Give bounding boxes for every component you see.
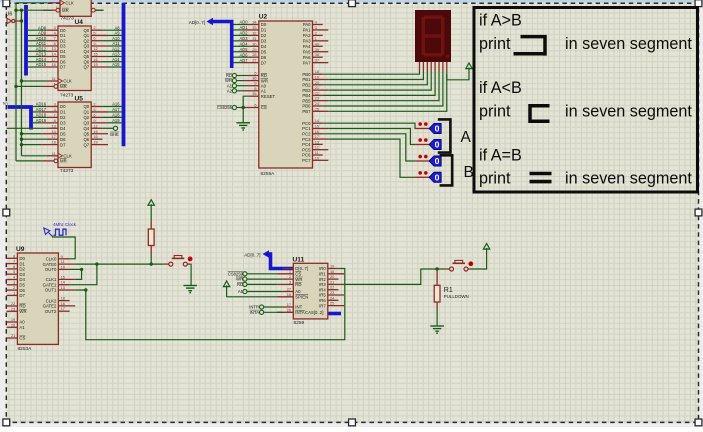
svg-text:D1: D1: [60, 110, 66, 115]
svg-text:17: 17: [51, 134, 55, 139]
svg-text:A11: A11: [113, 41, 121, 46]
svg-text:Q1: Q1: [83, 33, 89, 38]
svg-text:12: 12: [93, 123, 97, 128]
bus AD[16..19] at U5: [8, 107, 32, 130]
ground at U9 button: [183, 286, 197, 294]
svg-text:CLK: CLK: [65, 1, 73, 6]
svg-text:in seven segment: in seven segment: [565, 35, 692, 53]
svg-text:D7: D7: [19, 293, 25, 298]
svg-text:8259: 8259: [294, 320, 305, 326]
svg-text:2: 2: [93, 25, 95, 30]
svg-text:15: 15: [93, 129, 97, 134]
svg-text:AD13: AD13: [36, 52, 47, 57]
svg-text:1: 1: [54, 81, 56, 86]
svg-text:31: 31: [252, 36, 256, 41]
svg-text:AD7: AD7: [240, 58, 249, 63]
svg-text:17: 17: [315, 134, 319, 139]
IC U5 74273 octal latch: [41, 96, 108, 175]
svg-text:16: 16: [93, 57, 97, 62]
wire U5 D4 long west: [7, 127, 47, 129]
svg-text:CLK0: CLK0: [46, 257, 57, 262]
svg-text:A1: A1: [238, 289, 244, 294]
svg-text:U11: U11: [293, 257, 305, 264]
svg-text:INT: INT: [295, 305, 302, 310]
svg-text:PC3: PC3: [302, 137, 311, 142]
svg-text:23: 23: [315, 96, 319, 101]
svg-text:Q3: Q3: [83, 44, 89, 49]
wires A16-A19 from U5 to bus: [102, 102, 121, 123]
segments glyph A greater: [514, 37, 546, 56]
svg-text:RESET: RESET: [261, 94, 276, 99]
svg-text:PULLDOWN: PULLDOWN: [444, 294, 469, 299]
bus label AD[0..7] for U2: [189, 20, 205, 25]
clock source 4MHz symbol: [44, 228, 66, 237]
svg-text:AD10: AD10: [36, 36, 47, 41]
svg-text:MR: MR: [60, 159, 67, 164]
svg-text:37: 37: [315, 58, 319, 63]
svg-text:AD12: AD12: [36, 46, 47, 51]
svg-text:B: B: [464, 164, 474, 181]
svg-text:19: 19: [11, 317, 15, 322]
svg-text:IR0: IR0: [319, 266, 326, 271]
svg-text:OUT2: OUT2: [45, 309, 57, 314]
svg-text:PC5: PC5: [302, 147, 311, 152]
svg-text:GATE0: GATE0: [43, 262, 57, 267]
svg-text:AD11: AD11: [36, 41, 47, 46]
svg-text:AD14: AD14: [36, 57, 47, 62]
svg-text:IR6: IR6: [319, 298, 326, 303]
svg-text:74273: 74273: [61, 16, 75, 22]
svg-text:18: 18: [61, 296, 65, 301]
svg-text:fe): fe): [3, 101, 8, 106]
svg-text:Q6: Q6: [83, 137, 89, 142]
svg-text:D5: D5: [19, 283, 25, 288]
svg-text:25: 25: [330, 301, 334, 306]
svg-text:PB0: PB0: [302, 72, 311, 77]
svg-text:A1: A1: [19, 325, 25, 330]
svg-text:13: 13: [51, 46, 55, 51]
svg-text:3: 3: [54, 102, 56, 107]
svg-text:WR: WR: [295, 277, 302, 282]
svg-text:D3: D3: [19, 272, 25, 277]
svg-text:32: 32: [252, 30, 256, 35]
svg-text:2: 2: [13, 285, 15, 290]
ground below R1: [430, 326, 444, 334]
svg-text:21: 21: [315, 85, 319, 90]
svg-text:8: 8: [54, 41, 56, 46]
svg-text:74273: 74273: [60, 168, 74, 174]
svg-text:U5: U5: [75, 96, 84, 103]
svg-text:A0: A0: [19, 320, 25, 325]
svg-text:A18: A18: [112, 113, 120, 118]
svg-text:INTA: INTA: [250, 310, 259, 315]
svg-text:OUT0: OUT0: [45, 267, 57, 272]
power arrow at display: [466, 63, 472, 73]
svg-text:Q5: Q5: [83, 131, 89, 136]
bracket for input B: [440, 155, 453, 185]
svg-text:16: 16: [61, 301, 65, 306]
svg-text:in seven segment: in seven segment: [565, 170, 692, 188]
svg-text:IR7: IR7: [319, 303, 326, 308]
svg-text:11: 11: [315, 150, 319, 155]
wire button to power: [472, 256, 487, 269]
wire U5 CLK from node V2: [22, 155, 47, 157]
svg-text:16: 16: [287, 292, 291, 297]
svg-text:15: 15: [61, 274, 65, 279]
svg-text:IR4: IR4: [319, 287, 326, 292]
segments glyph A equal: [530, 174, 552, 182]
svg-text:12: 12: [315, 145, 319, 150]
svg-text:7: 7: [54, 112, 56, 117]
svg-text:D7: D7: [60, 142, 66, 147]
svg-text:PA5: PA5: [303, 49, 311, 54]
svg-text:Q4: Q4: [83, 49, 89, 54]
svg-text:AD3: AD3: [240, 36, 249, 41]
bus A[8..15] vertical left: [24, 5, 28, 76]
svg-text:CS8255: CS8255: [217, 105, 233, 110]
wire U9 OUT0 to CLK1: [70, 268, 84, 280]
svg-text:Q1: Q1: [83, 110, 89, 115]
svg-text:12: 12: [93, 46, 97, 51]
svg-text:WR: WR: [236, 277, 243, 282]
svg-text:A2: A2: [227, 88, 233, 93]
svg-text:1: 1: [56, 5, 58, 10]
svg-text:16: 16: [315, 129, 319, 134]
svg-text:2: 2: [315, 30, 317, 35]
svg-text:D0: D0: [60, 28, 66, 33]
power arrow at IR3 button: [483, 244, 489, 257]
wire node V2 vertical: [21, 10, 23, 156]
svg-text:PB7: PB7: [302, 109, 311, 114]
IC U11 8259 interrupt controller: [277, 257, 344, 327]
svg-text:U4: U4: [75, 19, 84, 26]
svg-text:CS: CS: [261, 105, 267, 110]
svg-text:27: 27: [287, 287, 291, 292]
wires AD16-AD19 from bus to U5: [33, 102, 47, 123]
IC top latch 74273 (partial): [43, 0, 102, 22]
svg-text:AD9: AD9: [38, 31, 47, 36]
svg-text:U6: U6: [6, 12, 13, 18]
svg-text:AD6: AD6: [240, 52, 249, 57]
svg-text:1: 1: [289, 269, 291, 274]
svg-text:0: 0: [435, 140, 440, 150]
svg-text:33: 33: [252, 25, 256, 30]
svg-text:D4: D4: [60, 49, 66, 54]
svg-text:print: print: [479, 170, 511, 188]
svg-text:D1: D1: [60, 33, 66, 38]
svg-text:13: 13: [61, 285, 65, 290]
svg-text:A: A: [461, 129, 472, 146]
bracket for input A: [438, 119, 451, 152]
svg-text:CS: CS: [295, 272, 301, 277]
svg-text:D1: D1: [19, 261, 25, 266]
push button at IR3: [445, 260, 474, 271]
wire U9 GATE0 to switch: [75, 262, 164, 265]
svg-text:PC4: PC4: [302, 142, 311, 147]
svg-text:15: 15: [93, 52, 97, 57]
svg-text:6: 6: [254, 103, 256, 108]
svg-text:1: 1: [13, 290, 15, 295]
wire U5 Q4 to terminal BHE: [102, 126, 119, 137]
svg-text:7: 7: [13, 259, 15, 264]
svg-text:18: 18: [315, 69, 319, 74]
seven segment pin stubs: [420, 62, 447, 71]
svg-text:3: 3: [289, 279, 291, 284]
wire U2 RESET to CS net: [242, 96, 249, 109]
svg-text:6: 6: [93, 112, 95, 117]
svg-text:19: 19: [330, 264, 334, 269]
svg-text:Q5: Q5: [83, 54, 89, 59]
svg-text:AD8: AD8: [38, 25, 47, 30]
wire node V1 vertical: [15, 3, 17, 161]
svg-text:IR5: IR5: [319, 293, 326, 298]
wire U4 CLK from node V2: [20, 79, 47, 82]
svg-text:D2: D2: [60, 115, 66, 120]
logic state toggle 3 (input B): [418, 155, 441, 166]
gate U6 (inverter, partial at edge): [6, 12, 15, 24]
svg-text:D2: D2: [60, 38, 66, 43]
resistor lead top: [150, 213, 152, 229]
svg-text:11: 11: [61, 259, 65, 264]
svg-text:21: 21: [330, 279, 334, 284]
svg-text:74273: 74273: [60, 92, 74, 98]
power arrow above resistor: [148, 200, 154, 213]
svg-text:D6: D6: [60, 59, 66, 64]
label PULLDOWN: [444, 294, 469, 299]
svg-text:D0: D0: [60, 104, 66, 109]
wire top latch output east: [96, 9, 104, 11]
svg-text:PA6: PA6: [303, 55, 311, 60]
svg-text:IR2: IR2: [319, 277, 326, 282]
svg-text:D2: D2: [19, 267, 25, 272]
svg-text:2: 2: [289, 274, 291, 279]
svg-text:D5: D5: [60, 54, 66, 59]
power arrow at U11 SP/EN: [223, 281, 277, 297]
svg-text:9: 9: [61, 254, 63, 259]
svg-text:3: 3: [54, 25, 56, 30]
svg-text:8: 8: [254, 86, 256, 91]
label 4Mhz Clock: [53, 222, 77, 227]
svg-text:A16: A16: [112, 102, 120, 107]
resistor R1 lead top: [436, 269, 438, 285]
svg-text:PC6: PC6: [302, 153, 311, 158]
wires PC0-PC3 to logic toggles: [323, 123, 416, 177]
svg-text:0: 0: [435, 172, 440, 182]
svg-text:A12: A12: [112, 46, 120, 51]
svg-text:D0: D0: [261, 22, 267, 27]
svg-text:29: 29: [252, 47, 256, 52]
wire U5 MR from node V1: [16, 160, 41, 162]
svg-text:U2: U2: [259, 14, 268, 21]
svg-text:38: 38: [315, 52, 319, 57]
svg-text:MR: MR: [62, 8, 69, 13]
seven segment display: [415, 10, 451, 62]
svg-text:D6: D6: [19, 288, 25, 293]
svg-text:print: print: [479, 35, 511, 53]
svg-text:U9: U9: [16, 246, 25, 253]
svg-text:OUT1: OUT1: [45, 288, 57, 293]
svg-text:23: 23: [330, 290, 334, 295]
annotation box border: [474, 8, 698, 193]
svg-text:GATE1: GATE1: [43, 282, 57, 287]
junction R1 top: [435, 267, 438, 270]
svg-text:MR: MR: [60, 84, 67, 89]
svg-text:PB5: PB5: [302, 98, 311, 103]
svg-text:5: 5: [93, 107, 95, 112]
svg-text:6: 6: [13, 264, 15, 269]
svg-text:D4: D4: [261, 44, 267, 49]
svg-text:Q2: Q2: [83, 115, 89, 120]
svg-text:0: 0: [435, 124, 440, 134]
svg-text:23: 23: [11, 306, 15, 311]
svg-text:AD4: AD4: [240, 41, 249, 46]
svg-text:Q6: Q6: [83, 59, 89, 64]
svg-text:INTR: INTR: [249, 305, 259, 310]
logic toggle pin stubs: [415, 129, 429, 178]
net label fe at left edge: [3, 101, 8, 106]
resistor R1 lead bottom: [436, 302, 438, 326]
wires PB0-PB7 to display segments: [323, 71, 447, 111]
svg-text:D6: D6: [60, 137, 66, 142]
svg-text:if A>B: if A>B: [479, 12, 522, 30]
svg-text:35: 35: [252, 91, 256, 96]
svg-text:AD5: AD5: [240, 47, 249, 52]
svg-text:5: 5: [13, 269, 15, 274]
svg-text:GATE2: GATE2: [43, 304, 57, 309]
svg-text:A9: A9: [114, 31, 120, 36]
svg-text:PC1: PC1: [302, 126, 311, 131]
svg-text:8255A: 8255A: [261, 171, 276, 177]
bus CAS[0..2] stub at U11: [328, 312, 341, 316]
svg-text:2: 2: [93, 102, 95, 107]
logic state toggle 4 (input B): [418, 171, 441, 182]
svg-text:AD2: AD2: [240, 31, 249, 36]
svg-text:A8: A8: [114, 25, 120, 30]
svg-text:PA4: PA4: [303, 44, 311, 49]
svg-text:A13: A13: [112, 52, 120, 57]
svg-text:RD: RD: [19, 304, 25, 309]
svg-text:AD0: AD0: [240, 20, 249, 25]
svg-text:PC2: PC2: [302, 132, 311, 137]
svg-text:9: 9: [93, 118, 95, 123]
svg-text:PB1: PB1: [302, 77, 311, 82]
svg-text:19: 19: [93, 62, 97, 67]
wire U6 output to node V2: [15, 19, 23, 22]
svg-text:13: 13: [51, 123, 55, 128]
svg-text:Q0: Q0: [83, 28, 89, 33]
svg-text:D5: D5: [60, 131, 66, 136]
svg-text:CLK2: CLK2: [46, 298, 57, 303]
svg-text:8: 8: [13, 253, 15, 258]
svg-text:3: 3: [13, 280, 15, 285]
label R1: [444, 287, 453, 294]
terminal INTR at U11: [249, 305, 282, 310]
wires AD0-AD7 bus entries to U2: [233, 20, 248, 63]
annotation box text: [479, 12, 692, 188]
svg-text:AD18: AD18: [36, 113, 47, 118]
svg-text:19: 19: [93, 140, 97, 145]
wires U5 D5-D7 from node V2: [20, 132, 47, 146]
svg-text:7: 7: [54, 36, 56, 41]
svg-text:AD19: AD19: [36, 118, 47, 123]
resistor R1 PULLDOWN: [434, 285, 440, 302]
svg-text:PA0: PA0: [303, 22, 311, 27]
bus AD[0..7] to U2 with arrow: [207, 18, 232, 68]
svg-text:CAS[0..2]: CAS[0..2]: [305, 310, 323, 315]
svg-text:6: 6: [93, 36, 95, 41]
svg-text:26: 26: [287, 307, 291, 312]
svg-text:PC7: PC7: [302, 158, 311, 163]
wire button to ground: [190, 264, 192, 285]
svg-text:A14: A14: [112, 57, 120, 62]
resistor R (4MHz net pullup): [148, 229, 154, 246]
svg-text:17: 17: [287, 302, 291, 307]
svg-text:16: 16: [93, 134, 97, 139]
svg-text:AD[0..7]: AD[0..7]: [189, 20, 205, 25]
svg-text:PB2: PB2: [302, 83, 311, 88]
svg-text:D6: D6: [261, 55, 267, 60]
logic state toggle 2 (input A): [418, 138, 441, 149]
svg-text:Q2: Q2: [83, 38, 89, 43]
svg-text:Q7: Q7: [83, 142, 89, 147]
svg-text:D5: D5: [261, 49, 267, 54]
svg-text:28: 28: [252, 52, 256, 57]
ground at U2 CS: [236, 108, 250, 131]
bus AD[0..7] to U11 with arrow: [263, 250, 294, 268]
svg-text:AD1: AD1: [240, 25, 249, 30]
svg-text:CS: CS: [19, 336, 25, 341]
push button at U9 GATE0: [164, 256, 193, 267]
svg-text:Q7: Q7: [83, 65, 89, 70]
svg-text:CS8259: CS8259: [228, 271, 244, 276]
svg-text:AD15: AD15: [36, 62, 47, 67]
svg-text:RD: RD: [237, 282, 243, 287]
svg-text:17: 17: [51, 57, 55, 62]
svg-text:PB6: PB6: [302, 104, 311, 109]
svg-text:18: 18: [51, 62, 55, 67]
svg-text:D1: D1: [261, 28, 267, 33]
svg-text:D3: D3: [261, 39, 267, 44]
wire clock to U9 CLK0: [52, 237, 75, 259]
svg-text:WR: WR: [19, 309, 26, 314]
svg-text:D0: D0: [19, 256, 25, 261]
resistor lead bottom: [150, 246, 152, 265]
svg-text:D7: D7: [261, 60, 267, 65]
svg-text:D7: D7: [60, 65, 66, 70]
svg-text:PA1: PA1: [303, 28, 311, 33]
svg-text:CLK1: CLK1: [46, 277, 57, 282]
svg-text:AD[0..7]: AD[0..7]: [244, 253, 260, 258]
svg-text:A10: A10: [112, 36, 120, 41]
svg-text:AD17: AD17: [36, 107, 47, 112]
svg-text:1: 1: [54, 156, 56, 161]
label A: [461, 129, 472, 146]
wire U9 GATE1 to GATE0 net: [70, 264, 97, 285]
svg-text:PB4: PB4: [302, 93, 311, 98]
svg-text:D[0..7]: D[0..7]: [295, 266, 308, 271]
svg-text:Q4: Q4: [83, 126, 89, 131]
svg-text:A0: A0: [295, 289, 301, 294]
svg-text:IR3: IR3: [319, 282, 326, 287]
svg-text:INTA: INTA: [295, 310, 305, 315]
svg-text:D3: D3: [60, 121, 66, 126]
svg-text:PA3: PA3: [303, 39, 311, 44]
terminal CS8255 at U2: [217, 105, 243, 110]
IC U2 8255A PPI: [243, 14, 328, 177]
svg-text:IR1: IR1: [319, 272, 326, 277]
wire U9 OUT1 to U11 IR0: [75, 269, 345, 340]
svg-text:A15: A15: [112, 62, 120, 67]
